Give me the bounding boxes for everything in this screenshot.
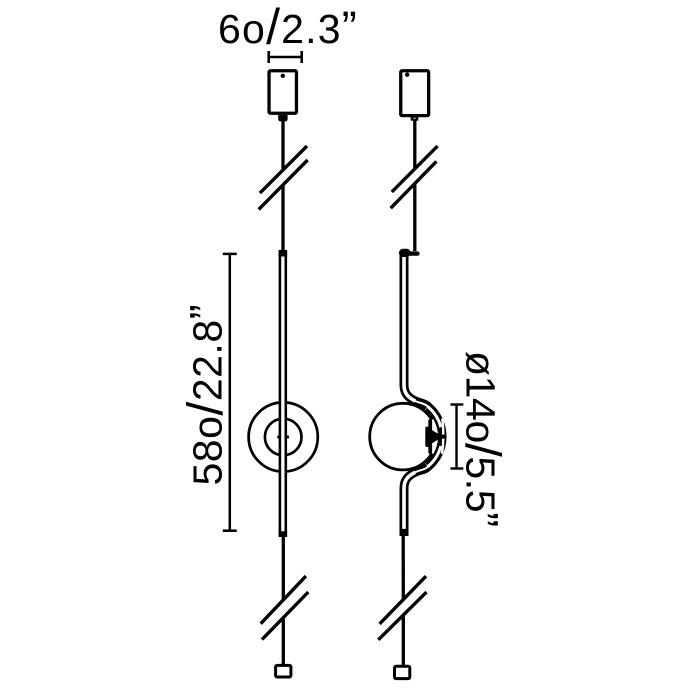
rod inner white core <box>404 253 415 401</box>
cable end connector front <box>276 665 291 677</box>
cable end connector side <box>395 666 410 678</box>
upper cable side (broken) <box>413 121 416 252</box>
dimension line sphere diameter 140 <box>451 405 464 469</box>
rod arc around sphere <box>428 407 442 467</box>
canopy screw dot side <box>405 73 409 77</box>
cable break marks front upper <box>259 146 308 209</box>
rod clamp stem on sphere face <box>428 419 432 454</box>
canopy screw dot front <box>281 74 285 78</box>
hidden sphere edge behind clamp <box>432 420 436 453</box>
rod bottom cap side <box>400 529 408 535</box>
LED bar bottom cap front <box>279 531 288 536</box>
rod white sliver along sphere upper <box>427 406 440 427</box>
canopy nub front (filled) <box>278 115 287 122</box>
seam white channel lower <box>442 439 443 454</box>
cable break marks side lower <box>378 576 426 640</box>
cable break marks side upper <box>391 146 438 208</box>
LED bar front view <box>280 251 286 536</box>
canopy side view <box>401 71 429 116</box>
LED bar side view: curved rod around sphere <box>404 253 442 536</box>
dimension line height 580 <box>223 254 237 531</box>
canopy nub side (open) <box>412 117 417 120</box>
clamp pointer <box>431 429 443 444</box>
seam white channel upper <box>442 419 443 435</box>
rod white sliver along sphere lower <box>427 446 440 467</box>
dimension line width 60 <box>269 51 302 63</box>
sphere diffuser side view <box>370 403 437 470</box>
svg-text:58o/22.8”: 58o/22.8” <box>178 304 234 486</box>
diffuser rings front <box>249 402 318 471</box>
lower cable front (broken) <box>282 536 285 665</box>
center axis dash <box>277 436 289 439</box>
svg-text:6o/2.3”: 6o/2.3” <box>218 0 358 55</box>
rod lower segment <box>404 467 428 537</box>
lower cable side (broken) <box>402 536 405 666</box>
LED bar top cap front <box>279 250 288 256</box>
canopy front view <box>269 71 296 114</box>
cable break marks front lower <box>261 576 309 639</box>
upper cable front (broken) <box>281 121 284 254</box>
svg-text:ø14o/5.5”: ø14o/5.5” <box>455 351 511 527</box>
rod upper segment <box>404 253 428 407</box>
rod top cap side <box>399 249 411 257</box>
